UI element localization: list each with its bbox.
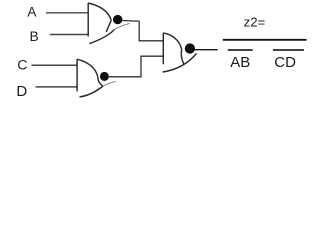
NAND gate U1 (inputs A,B) body bbox=[88, 3, 129, 44]
svg-text:C: C bbox=[17, 57, 27, 73]
wire U1 output to U3 input bbox=[122, 21, 163, 41]
wire B bbox=[50, 34, 88, 36]
NAND gate U2 (inputs C,D) body bbox=[77, 59, 115, 97]
wire U3 output z2 bbox=[195, 49, 218, 51]
NAND gate U3 (output gate) body bbox=[163, 33, 197, 72]
NAND gate U3 inversion bubble bbox=[185, 43, 195, 53]
svg-text:AB: AB bbox=[230, 54, 250, 71]
overline (outer NOT bar) bbox=[223, 39, 307, 41]
svg-text:B: B bbox=[30, 29, 39, 44]
NAND gate U2 inversion bubble bbox=[100, 72, 109, 81]
svg-text:A: A bbox=[27, 5, 36, 20]
overline over AB bbox=[228, 49, 253, 51]
svg-text:z2=: z2= bbox=[244, 15, 266, 30]
wire C bbox=[32, 64, 78, 66]
wire A bbox=[46, 12, 88, 14]
NAND gate U1 inversion bubble bbox=[113, 15, 122, 24]
wire U2 output to U3 input bbox=[109, 56, 164, 77]
overline over CD bbox=[273, 49, 304, 51]
svg-text:CD: CD bbox=[274, 54, 296, 71]
wire D bbox=[36, 86, 78, 88]
svg-text:D: D bbox=[16, 83, 27, 100]
